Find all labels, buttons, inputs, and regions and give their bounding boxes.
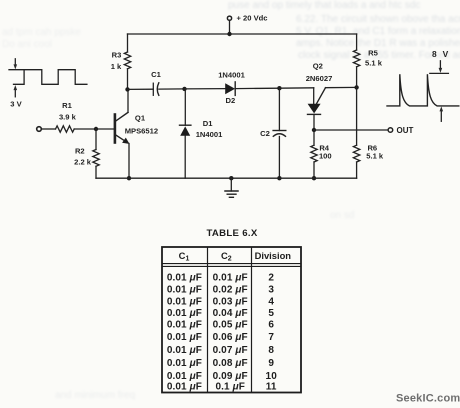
svg-text:Q2: Q2 (313, 61, 323, 70)
wire OUT (314, 129, 388, 131)
svg-text:0.01 μF: 0.01 μF (167, 319, 202, 330)
wire junction to C1 (128, 88, 154, 90)
node D1 top junction (182, 87, 186, 91)
svg-text:10: 10 (266, 371, 278, 382)
svg-text:4: 4 (268, 297, 274, 308)
svg-text:2: 2 (268, 272, 274, 283)
table data rows (167, 272, 277, 392)
svg-text:0.06 μF: 0.06 μF (213, 332, 248, 343)
diode D1 (184, 89, 186, 125)
resistor R1 (56, 126, 75, 132)
input square wave symbol (14, 70, 87, 85)
node base junction (94, 127, 98, 131)
resistor R2 (93, 150, 99, 167)
OUT terminal (388, 128, 393, 133)
svg-text:0.09 μF: 0.09 μF (213, 371, 248, 382)
wire divider node down to R6 (356, 87, 358, 145)
wire Q1 collector up (127, 89, 129, 112)
svg-text:0.02 μF: 0.02 μF (213, 285, 248, 296)
svg-text:0.01 μF: 0.01 μF (167, 297, 202, 308)
svg-text:C2: C2 (221, 250, 232, 263)
input wave top reference line (9, 69, 24, 71)
svg-text:1N4001: 1N4001 (196, 130, 223, 139)
junction emitter-rail (127, 176, 131, 180)
wire R2 to bottom rail (95, 166, 97, 178)
input terminal (37, 127, 42, 132)
svg-text:0.04 μF: 0.04 μF (213, 308, 248, 319)
svg-text:0.1 μF: 0.1 μF (215, 382, 244, 393)
svg-text:0.01 μF: 0.01 μF (167, 308, 202, 319)
svg-text:1N4001: 1N4001 (218, 70, 245, 79)
svg-text:D2: D2 (226, 96, 236, 105)
transistor Q1 (115, 112, 130, 143)
svg-text:0.01 μF: 0.01 μF (167, 272, 202, 283)
svg-text:2N6027: 2N6027 (306, 74, 333, 83)
+20 Vdc terminal (227, 16, 231, 20)
svg-text:0.01 μF: 0.01 μF (167, 382, 202, 393)
svg-text:Division: Division (255, 250, 292, 261)
svg-text:5.1 k: 5.1 k (365, 58, 383, 67)
header double line (162, 263, 301, 265)
svg-text:C1: C1 (179, 250, 190, 263)
svg-text:1 k: 1 k (111, 62, 122, 71)
svg-text:0.07 μF: 0.07 μF (213, 345, 248, 356)
resistor R6 (353, 145, 359, 162)
svg-text:0.05 μF: 0.05 μF (213, 319, 248, 330)
node Q2 cathode junction (312, 128, 316, 132)
resistor R3 (127, 34, 129, 52)
input wave top arrow (14, 59, 18, 70)
output wave top reference line (430, 72, 449, 74)
svg-text:0.01 μF: 0.01 μF (167, 332, 202, 343)
svg-text:8 V: 8 V (432, 49, 450, 59)
svg-text:5: 5 (268, 308, 274, 319)
svg-text:11: 11 (266, 382, 277, 393)
svg-text:Q1: Q1 (135, 113, 146, 122)
svg-text:TABLE 6.X: TABLE 6.X (206, 228, 257, 239)
input wave bottom arrow (14, 85, 18, 97)
svg-text:8: 8 (268, 345, 274, 356)
svg-text:R2: R2 (75, 146, 85, 155)
wire input to R1 (41, 128, 55, 130)
wire gate to divider node (326, 86, 357, 88)
svg-text:R5: R5 (368, 49, 378, 58)
table outer border (162, 247, 301, 393)
top rail (128, 33, 357, 35)
diode D2 (225, 83, 235, 94)
svg-text:MPS6512: MPS6512 (125, 126, 158, 135)
table column line 2 (251, 247, 253, 393)
svg-text:R3: R3 (112, 51, 122, 60)
output bottom up arrow (440, 106, 444, 121)
wire node to R2 (95, 129, 97, 150)
resistor R4 (313, 130, 315, 145)
svg-text:C2: C2 (260, 129, 270, 138)
svg-text:D1: D1 (203, 119, 213, 128)
svg-text:0.08 μF: 0.08 μF (213, 358, 248, 369)
svg-text:3: 3 (268, 285, 274, 296)
svg-text:3 V: 3 V (10, 99, 22, 108)
svg-text:0.01 μF: 0.01 μF (167, 371, 202, 382)
transistor Q2 (PUT) (313, 88, 315, 104)
output 8V down arrow (439, 61, 443, 73)
output waveform (387, 74, 459, 106)
svg-text:5.1 k: 5.1 k (366, 152, 384, 161)
wire Q1 emitter down (128, 144, 130, 179)
wire C2 node to Q2 anode (279, 87, 313, 89)
svg-text:0.03 μF: 0.03 μF (213, 297, 248, 308)
capacitor C2 (278, 88, 280, 130)
svg-text:0.01 μF: 0.01 μF (167, 358, 202, 369)
node C2 top junction (277, 86, 281, 90)
wire R1 to base node (74, 128, 96, 130)
svg-text:0.01 μF: 0.01 μF (213, 272, 248, 283)
svg-text:SeekIC.com: SeekIC.com (396, 393, 460, 405)
svg-text:6: 6 (268, 319, 274, 330)
node collector/R3/C1 junction (125, 87, 129, 91)
svg-text:R1: R1 (62, 101, 72, 110)
TABLE 6.X (162, 228, 301, 392)
svg-text:+ 20 Vdc: + 20 Vdc (237, 13, 268, 22)
svg-text:2.2 k: 2.2 k (74, 157, 92, 166)
wire node to D2 (185, 88, 226, 90)
svg-text:C1: C1 (151, 70, 161, 79)
svg-text:3.9 k: 3.9 k (59, 113, 77, 122)
svg-text:0.01 μF: 0.01 μF (167, 345, 202, 356)
svg-text:0.01 μF: 0.01 μF (167, 285, 202, 296)
node gate/R5/R6 junction (354, 85, 358, 89)
svg-text:OUT: OUT (397, 126, 414, 135)
transistor Q1 base wire (96, 128, 114, 130)
svg-text:100: 100 (319, 152, 332, 161)
faint scan bleed-through text (228, 0, 420, 11)
ground (229, 176, 233, 180)
resistor R5 (356, 34, 358, 50)
bottom rail (96, 177, 357, 179)
table column line 1 (207, 247, 209, 393)
svg-text:7: 7 (268, 332, 274, 343)
svg-text:9: 9 (268, 358, 274, 369)
wire C1 to D1 node (159, 88, 185, 90)
capacitor C1 (152, 83, 154, 95)
wire D2 to C2 node (235, 87, 279, 89)
